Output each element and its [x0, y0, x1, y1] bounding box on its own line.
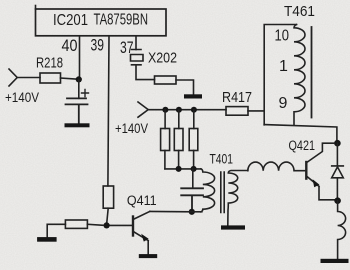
+140V source arrow (left): [9, 69, 17, 86]
base drive choke: [248, 162, 306, 171]
damper diode: [332, 143, 344, 198]
ground (X202 branch): [184, 94, 202, 98]
deflection coil: [338, 201, 346, 259]
svg-text:X202: X202: [148, 50, 177, 67]
resistor (X202 series): [155, 76, 177, 84]
svg-text:+140V: +140V: [115, 121, 148, 136]
wire R218 to node: [61, 78, 80, 79]
transformer T461 winding: [294, 25, 305, 125]
svg-text:39: 39: [91, 35, 105, 54]
ground (electrolytic): [65, 123, 90, 127]
transformer T461 core: [311, 27, 313, 118]
resonance capacitor: [181, 188, 203, 210]
transformer T401 core: [221, 172, 224, 213]
junction (tank dot 2): [191, 166, 197, 172]
transistor Q411: [132, 217, 134, 236]
+140V source arrow (center): [138, 102, 148, 117]
svg-text:IC201: IC201: [53, 12, 88, 29]
wire R417 to T461 pin 9: [248, 110, 264, 112]
wire tank dot to capacitor: [192, 169, 194, 188]
transformer T461 box: [264, 25, 296, 125]
+140V rail: [148, 109, 226, 111]
transformer T401 primary: [201, 169, 215, 212]
resistor (bank 1): [164, 110, 166, 129]
resistor R218: [40, 73, 61, 83]
svg-text:40: 40: [62, 36, 78, 55]
svg-text:T461: T461: [284, 3, 315, 20]
junction (pin 40 node): [76, 76, 82, 82]
ground (base bias): [37, 237, 57, 242]
resistor (base bias): [65, 220, 87, 228]
svg-text:Q411: Q411: [127, 193, 157, 208]
svg-text:TA8759BN: TA8759BN: [94, 12, 149, 29]
resistor (bank 2): [178, 110, 180, 129]
crystal X202: [131, 50, 144, 65]
junction (rail dot A): [162, 107, 168, 113]
junction (rail dot C): [191, 107, 197, 113]
node line (tank top): [165, 168, 201, 170]
svg-text:1: 1: [279, 58, 288, 75]
junction (tank dot 1): [176, 166, 182, 172]
resistor R417: [226, 107, 248, 116]
resistor (bank 3): [193, 110, 195, 129]
transformer T401 secondary: [228, 171, 248, 226]
svg-text:+140V: +140V: [5, 90, 39, 105]
junction (Q411 collector node): [189, 209, 195, 215]
svg-text:Q421: Q421: [289, 138, 316, 153]
IC U201 box: [36, 9, 167, 36]
ground (Q411 emitter): [139, 254, 157, 258]
pin 37 lead: [135, 36, 137, 50]
resistor (pin 39 series): [103, 186, 113, 208]
ground (T401 secondary): [221, 225, 245, 229]
wire collector node to primary: [192, 211, 202, 213]
wire resistor to ground: [176, 80, 194, 94]
pin 39 lead: [108, 36, 109, 186]
svg-text:T401: T401: [210, 151, 234, 167]
electrolytic capacitor (pin 40): [66, 98, 88, 123]
svg-text:9: 9: [279, 95, 288, 112]
junction (Q421 collector node): [334, 140, 341, 147]
junction (rail dot B): [176, 107, 182, 113]
wire crystal to series resistor: [136, 65, 155, 80]
wire T461 to Q421 collector: [264, 125, 337, 141]
svg-text:10: 10: [275, 27, 290, 44]
junction (emitter/damper node): [334, 197, 341, 204]
wire node to capacitor: [78, 79, 80, 98]
polarity plus: [82, 90, 89, 97]
svg-text:R218: R218: [36, 55, 63, 72]
pin 40 lead: [79, 36, 81, 78]
transistor Q421: [305, 162, 307, 179]
junction (Q411 base node): [104, 222, 110, 228]
wire Q411 collector to node: [150, 210, 192, 212]
ground (deflection coil): [321, 259, 349, 263]
svg-text:R417: R417: [222, 89, 252, 106]
wire arrow to R218: [17, 77, 40, 79]
